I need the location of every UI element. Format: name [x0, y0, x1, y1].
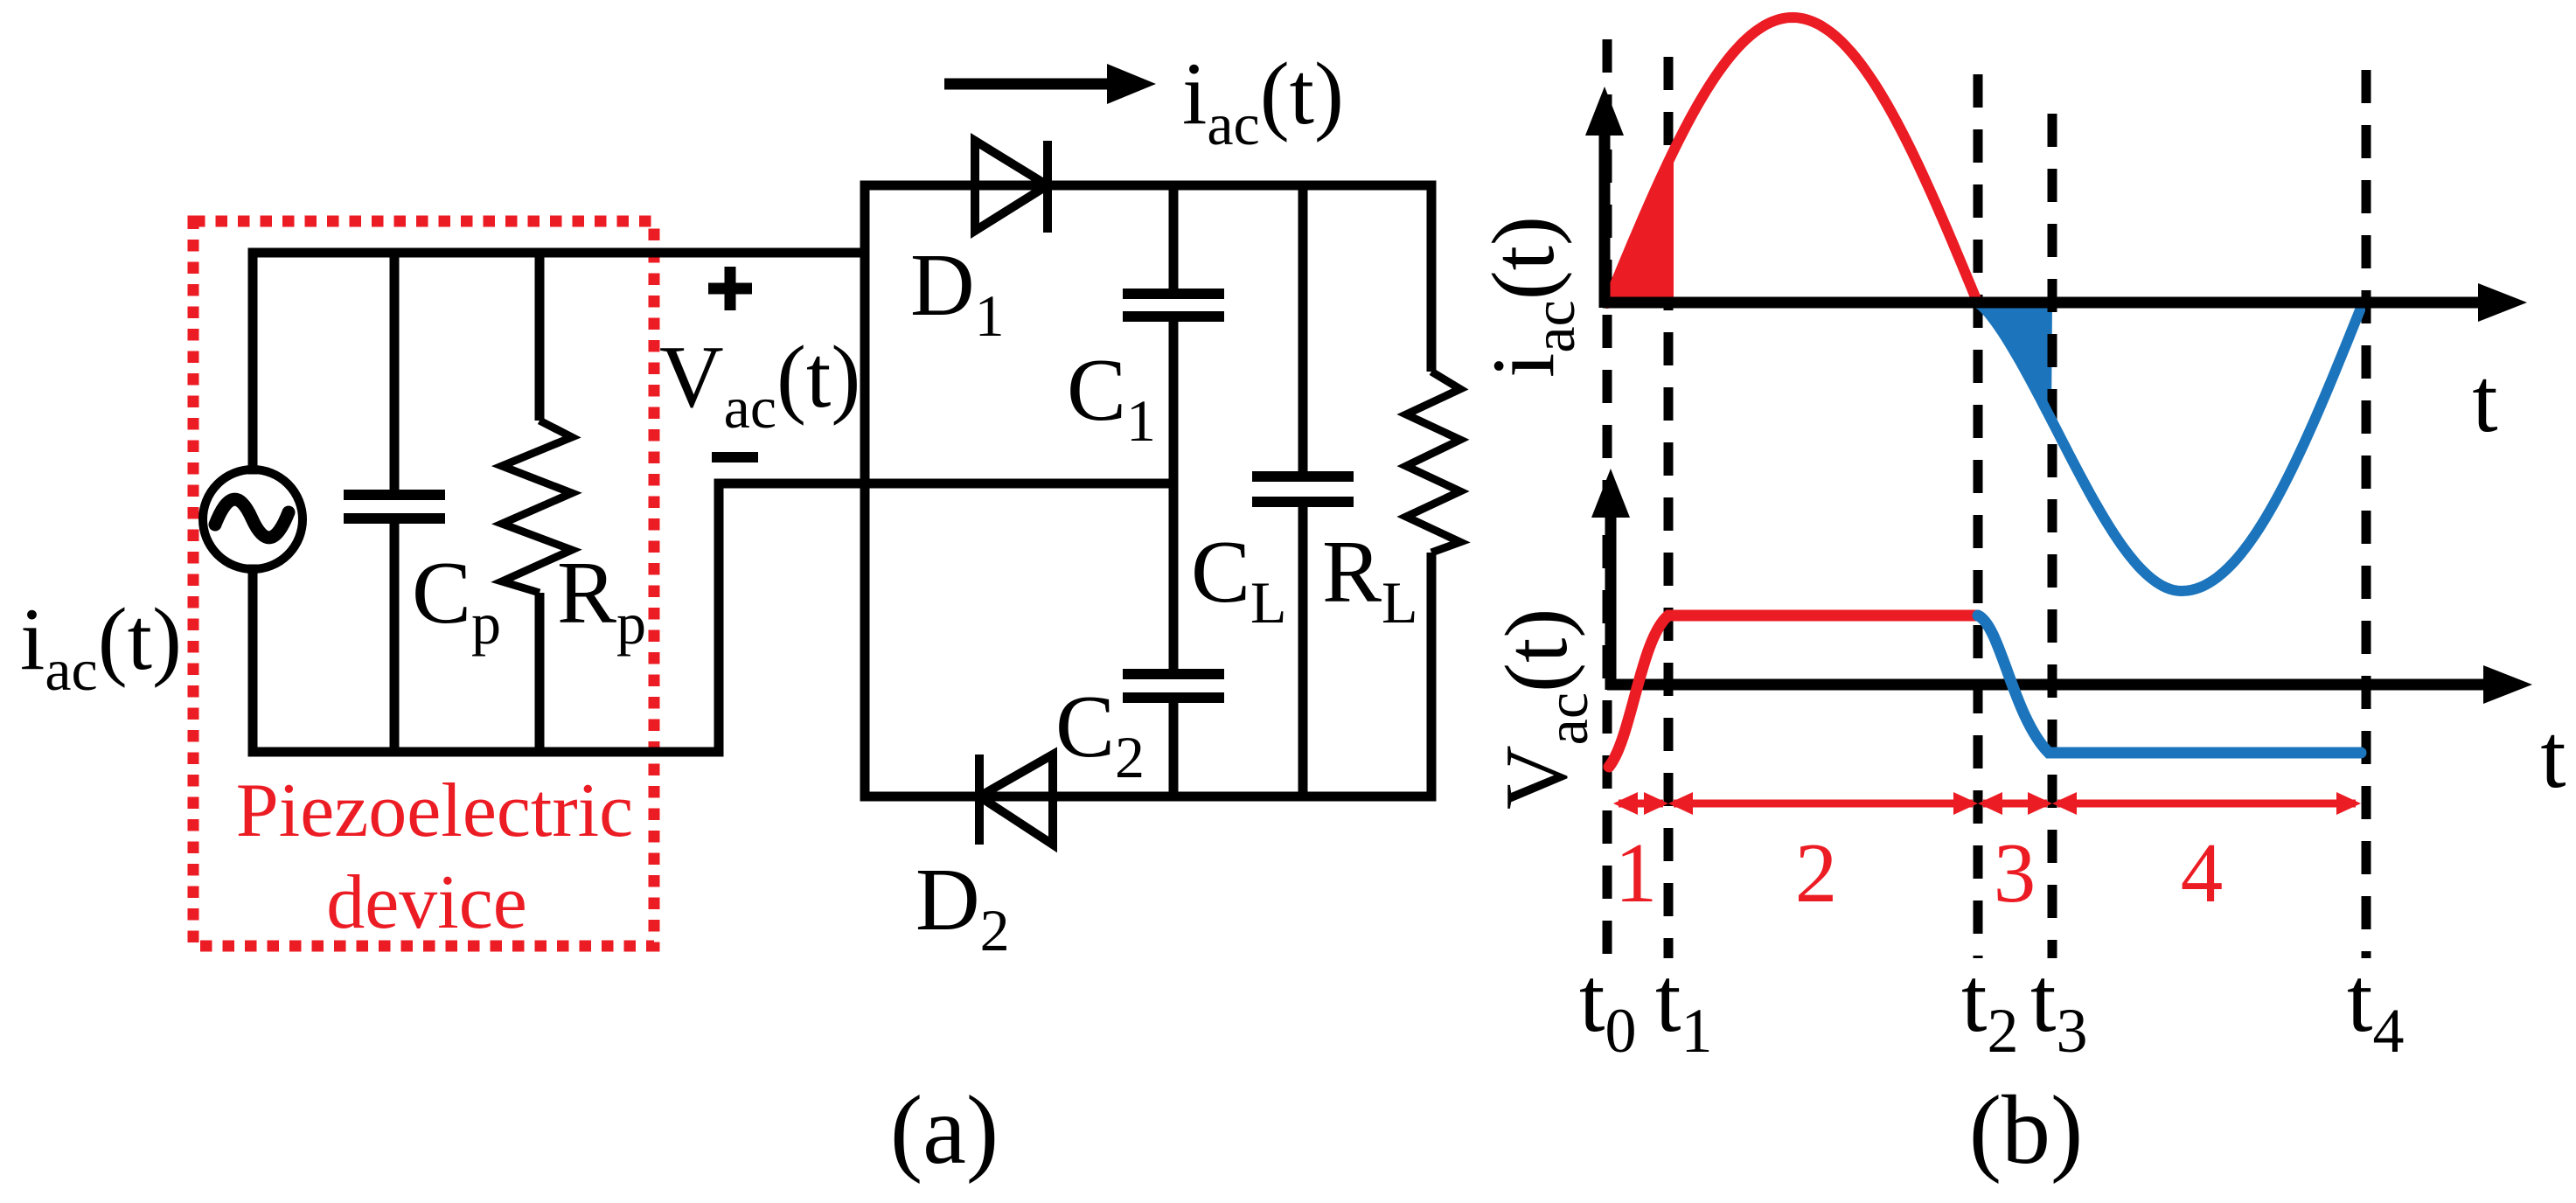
- svg-text:(b): (b): [1969, 1076, 2084, 1185]
- svg-text:iac(t): iac(t): [1474, 216, 1587, 378]
- svg-text:Piezoelectric: Piezoelectric: [236, 768, 633, 853]
- svg-text:2: 2: [1795, 826, 1838, 920]
- svg-text:4: 4: [2181, 826, 2224, 920]
- svg-text:3: 3: [1994, 826, 2036, 920]
- svg-text:iac(t): iac(t): [20, 590, 182, 703]
- svg-text:iac(t): iac(t): [1182, 45, 1344, 157]
- svg-text:1: 1: [1615, 826, 1658, 920]
- svg-text:t: t: [2472, 349, 2497, 451]
- svg-text:device: device: [326, 860, 527, 945]
- svg-text:t: t: [2540, 705, 2566, 807]
- svg-text:(a): (a): [890, 1076, 999, 1185]
